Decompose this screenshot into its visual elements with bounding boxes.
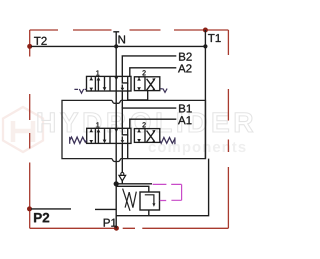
pilot vent dashed line (magenta) bbox=[153, 184, 182, 200]
relief valve internal arrow bbox=[145, 195, 154, 204]
relief valve spring bbox=[125, 192, 136, 208]
watermark logo hexagon bbox=[3, 107, 43, 152]
port dot P1 bbox=[114, 226, 119, 231]
label 1 (upper spool) bbox=[96, 70, 99, 75]
red dashed enclosure border bbox=[30, 30, 229, 228]
spring left of U3 bbox=[70, 137, 87, 144]
wire P1 bbox=[95, 208, 116, 210]
port dot T2 bbox=[27, 44, 32, 49]
watermark text line 1 bbox=[38, 112, 253, 132]
label A2 bbox=[178, 64, 191, 72]
junction node pilot branch bbox=[114, 181, 119, 186]
wire relief feed bbox=[116, 186, 148, 192]
label 1 (lower spool) bbox=[96, 122, 99, 127]
port labels bbox=[34, 34, 221, 227]
wire tank return loop bbox=[116, 159, 208, 216]
wire T2-T1 rail bbox=[31, 45, 205, 47]
spool valve U4 (lower section 2) bbox=[134, 129, 159, 143]
wire N feed vertical bbox=[115, 32, 117, 228]
wire B2 bbox=[122, 56, 176, 77]
watermark text line 2 bbox=[149, 142, 246, 155]
wire T1 drop bbox=[204, 30, 206, 159]
label A1 bbox=[178, 116, 191, 124]
label 2 (upper spool) bbox=[142, 70, 146, 75]
wire carry line upper bbox=[121, 91, 123, 108]
port dot T1 bbox=[203, 28, 208, 33]
label T1 bbox=[208, 34, 221, 42]
wire carry line lower bbox=[121, 143, 123, 173]
check valve (inlet) bbox=[121, 172, 124, 175]
valve body outline (section block) bbox=[62, 100, 206, 161]
label P2 bbox=[34, 213, 49, 222]
wire B1 bbox=[122, 108, 176, 128]
wire relief outlet bbox=[148, 210, 150, 216]
label 2 (lower spool) bbox=[142, 122, 146, 127]
relief valve V1 body bbox=[140, 192, 160, 210]
wire pilot to relief top bbox=[116, 183, 152, 185]
wire P2 stub bbox=[31, 208, 71, 210]
detent symbol left of U1 bbox=[74, 89, 86, 93]
junction node at N/T rail bbox=[114, 44, 118, 48]
spool valve U1 (upper section 1) bbox=[87, 76, 148, 100]
node N plug tick bbox=[113, 31, 119, 33]
label B2 bbox=[179, 53, 192, 61]
junction node at T1 bbox=[203, 44, 207, 48]
label T2 bbox=[34, 37, 47, 45]
relief valve adjust arrow bbox=[123, 189, 130, 211]
spool valve U3 (lower section 1) bbox=[87, 128, 131, 158]
label N bbox=[119, 35, 125, 43]
wire A2 bbox=[130, 68, 177, 77]
wire A1 bbox=[130, 119, 177, 128]
wire carry stem below check valve bbox=[121, 181, 123, 184]
spring right of U4 bbox=[160, 137, 175, 144]
label B1 bbox=[179, 104, 192, 112]
port dot P2 bbox=[27, 206, 32, 211]
detent symbol right of U2 bbox=[160, 89, 167, 93]
spool valve U2 (upper section 2) bbox=[134, 77, 159, 91]
label P1 bbox=[104, 219, 117, 227]
